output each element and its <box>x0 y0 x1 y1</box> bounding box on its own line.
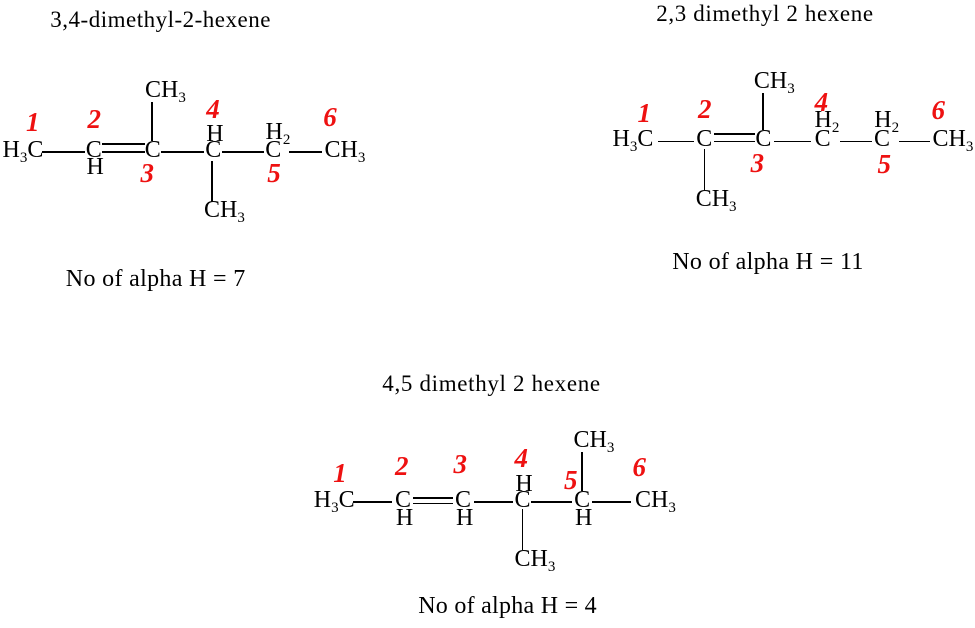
title structure 3 <box>382 372 600 395</box>
S3 atom CH3 below C4 <box>515 547 556 575</box>
S2 number 3 <box>751 150 765 177</box>
S3 atom C5 <box>574 488 590 512</box>
S1 atom C2 <box>86 138 102 162</box>
S2 atom C3 <box>755 127 771 151</box>
S1 bond C1-C2 <box>42 151 85 153</box>
S3 number 6 <box>633 454 647 481</box>
title structure 2 <box>656 2 873 25</box>
S3 number 1 <box>333 460 347 487</box>
S3 number 3 <box>454 451 468 478</box>
S1 atom H below C2 <box>87 155 104 179</box>
S2 atom H3C (C1) <box>613 127 654 155</box>
S1 bond C4 to CH3 below <box>211 161 213 202</box>
S3 atom C4 <box>515 488 531 512</box>
S1 double bond C2=C3 lower <box>102 151 145 153</box>
S1 bond C4-C5 <box>222 151 264 153</box>
S3 number 4 <box>515 445 529 472</box>
S2 atom CH3 below C2 <box>696 187 737 215</box>
S2 number 5 <box>878 151 892 178</box>
S1 atom CH3 above C3 <box>145 78 186 106</box>
S2 double bond C2=C3 lower <box>714 141 755 143</box>
S2 bond C3 to CH3 above <box>762 93 764 130</box>
S1 number 6 <box>323 104 337 131</box>
S1 atom C3 <box>145 138 161 162</box>
S1 atom C4 <box>205 138 221 162</box>
S2 double bond C2=C3 upper <box>714 133 755 135</box>
S1 bond C3-C4 <box>161 151 204 153</box>
S3 atom H3C (C1) <box>314 488 355 516</box>
S1 atom CH3 (C6) <box>325 138 366 166</box>
S3 bond C5 to CH3 above <box>581 452 583 491</box>
S3 bond C4 to CH3 below <box>522 509 524 549</box>
S1 number 4 <box>206 96 220 123</box>
S3 atom CH3 (C6) <box>635 488 676 516</box>
S2 bond C2 to CH3 below <box>704 149 706 190</box>
S2 bond C5-C6 <box>899 141 930 143</box>
S3 bond C5-C6 <box>592 501 631 503</box>
caption structure 2 <box>672 250 864 274</box>
S3 bond C4-C5 <box>531 501 572 503</box>
S3 atom H above C4 <box>515 472 532 496</box>
S3 atom H below C2 <box>396 506 413 530</box>
S2 number 4 <box>815 89 829 116</box>
S2 number 2 <box>698 96 712 123</box>
S3 atom C2 <box>395 488 411 512</box>
S1 number 1 <box>26 109 40 136</box>
S3 atom CH3 above C5 <box>574 428 615 456</box>
S3 atom H below C3 <box>456 506 473 530</box>
S2 number 6 <box>932 97 946 124</box>
S3 atom H below C5 <box>575 506 592 530</box>
caption structure 1 <box>66 267 246 291</box>
S3 bond C3-C4 <box>474 501 513 503</box>
S2 atom C2 <box>696 127 712 151</box>
S3 number 2 <box>395 453 409 480</box>
S2 atom H2 above C5 <box>874 108 899 136</box>
title structure 1 <box>50 8 271 31</box>
S1 bond C5-C6 <box>289 151 322 153</box>
S1 number 2 <box>88 106 102 133</box>
S1 bond C3 to CH3 above <box>151 102 153 142</box>
S2 number 1 <box>638 100 652 127</box>
S2 atom C5 <box>874 127 890 151</box>
S3 bond C1-C2 <box>353 501 393 503</box>
S2 bond C1-C2 <box>658 141 695 143</box>
caption structure 3 <box>418 594 597 618</box>
S2 atom CH3 (C6) <box>933 127 974 155</box>
S1 atom H above C4 <box>206 122 223 146</box>
S2 atom C4 <box>815 127 831 151</box>
S2 bond C4-C5 <box>840 141 872 143</box>
S1 double bond C2=C3 upper <box>102 143 145 145</box>
S3 number 5 <box>564 467 578 494</box>
S1 number 5 <box>267 160 281 187</box>
S3 double bond C2=C3 upper <box>413 497 454 499</box>
S1 atom H2 above C5 <box>266 120 291 148</box>
S1 atom H3C (C1) <box>3 138 44 166</box>
S1 number 3 <box>141 160 155 187</box>
S3 double bond C2=C3 lower <box>413 503 454 505</box>
S1 atom C5 <box>265 138 281 162</box>
S2 atom CH3 above C3 <box>754 69 795 97</box>
S2 bond C3-C4 <box>774 141 812 143</box>
S1 atom CH3 below C4 <box>204 198 245 226</box>
S3 atom C3 <box>455 488 471 512</box>
S2 atom H2 above C4 <box>815 108 840 136</box>
